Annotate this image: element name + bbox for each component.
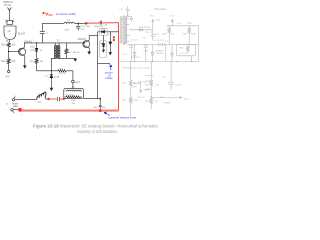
svg-text:2: 2 <box>13 19 14 21</box>
resistor R27 <box>150 97 153 109</box>
svg-text:C15: C15 <box>108 34 113 36</box>
node C12 <box>77 23 79 25</box>
red node yoke2 <box>18 108 22 112</box>
svg-text:controls retrace time: controls retrace time <box>108 115 136 119</box>
arrowhead down <box>8 7 12 10</box>
svg-text:2SD401: 2SD401 <box>78 39 87 41</box>
flyback T2 left winding <box>121 16 123 18</box>
svg-text:main: main <box>37 101 41 103</box>
diode CR8 <box>133 45 136 62</box>
svg-text:P6KE75: P6KE75 <box>156 53 165 55</box>
svg-text:T2: T2 <box>121 18 124 20</box>
svg-text:R26: R26 <box>145 85 150 87</box>
svg-text:voltage: voltage <box>105 77 113 80</box>
small element above red line <box>99 99 102 110</box>
CR2 wire <box>98 31 119 33</box>
svg-text:.1: .1 <box>47 33 50 35</box>
T1 bottom left lead <box>51 58 55 71</box>
svg-text:180-750 V: 180-750 V <box>138 82 149 84</box>
T1 bottom right rail <box>59 57 75 59</box>
node at x36.6 <box>36 42 37 43</box>
Q2 ground arrow <box>87 52 91 55</box>
svg-text:1: 1 <box>5 19 6 21</box>
svg-text:R25: R25 <box>123 100 128 102</box>
svg-text:HR7: HR7 <box>94 107 99 109</box>
svg-text:-0.6: -0.6 <box>76 52 80 54</box>
svg-text:R16: R16 <box>68 52 73 54</box>
svg-text:220: 220 <box>72 103 76 105</box>
series caps on W1 <box>159 43 165 46</box>
emitter arrowhead <box>23 65 27 68</box>
svg-text:470μ 16V: 470μ 16V <box>94 26 103 28</box>
transformer T1 left winding <box>54 43 56 46</box>
transformer T1 right winding <box>58 43 60 46</box>
red vertical <box>118 23 120 111</box>
vertical at 165.8 <box>165 45 167 62</box>
red top wire <box>86 22 118 25</box>
svg-text:yoke: yoke <box>13 105 19 108</box>
blue arrow retrace <box>105 113 110 116</box>
zener bottom arrowhead <box>50 88 54 91</box>
T2 taps <box>127 19 130 41</box>
svg-text:R24: R24 <box>123 83 128 85</box>
wire box to right <box>83 98 100 100</box>
wire R15 to R14 <box>8 47 10 59</box>
pot wiper <box>134 82 137 84</box>
svg-text:5mH: 5mH <box>65 29 70 31</box>
red node fly1 <box>113 36 115 38</box>
box right <box>176 45 195 56</box>
svg-text:+C4: +C4 <box>162 76 167 78</box>
cap on yoke line <box>57 97 59 101</box>
svg-text:R21: R21 <box>183 34 188 36</box>
svg-text:C7a: C7a <box>123 54 128 56</box>
svg-text:R17: R17 <box>59 68 64 70</box>
svg-text:1 M: 1 M <box>155 84 159 86</box>
CR6 stub <box>103 35 105 40</box>
svg-text:VCC: VCC <box>45 12 53 18</box>
svg-text:+: + <box>148 34 150 36</box>
blue arrow sweep <box>110 67 112 71</box>
svg-text:47M: 47M <box>132 87 136 89</box>
svg-text:+12V: +12V <box>75 82 81 84</box>
svg-text:C10: C10 <box>103 24 108 26</box>
+12V terminal <box>72 80 75 83</box>
svg-text:CR21: CR21 <box>30 47 36 49</box>
resistor R16 <box>65 43 68 58</box>
T2 right winding <box>125 16 127 18</box>
red node yoke mid <box>47 98 49 100</box>
svg-text:0.2 1 w: 0.2 1 w <box>179 53 186 55</box>
svg-text:J16: J16 <box>160 97 164 99</box>
red node box left <box>63 98 65 100</box>
horiz yoke coil <box>37 92 46 99</box>
red yoke segment <box>49 98 64 100</box>
svg-text:versions): versions) <box>145 75 154 77</box>
svg-text:R08: R08 <box>30 61 35 63</box>
svg-text:2: 2 <box>13 113 15 115</box>
svg-text:CR2: CR2 <box>101 28 106 30</box>
inductor L1 <box>64 22 75 23</box>
svg-text:1N914: 1N914 <box>30 50 37 52</box>
diode CR1 <box>35 43 38 59</box>
bell pin <box>6 40 10 43</box>
resistor R21 <box>188 26 191 45</box>
svg-text:100: 100 <box>11 45 16 47</box>
svg-text:2N4401: 2N4401 <box>24 41 33 43</box>
long vertical to yoke net <box>97 32 99 99</box>
cap C12 <box>76 23 80 30</box>
box bottom stub <box>191 56 193 62</box>
L3 R18 box <box>64 89 84 99</box>
zener CR3 <box>50 71 53 88</box>
Q2 base dot <box>83 42 85 44</box>
svg-text:NGP9112: NGP9112 <box>131 57 141 59</box>
diode CR7 chain <box>109 32 112 53</box>
svg-text:0.375 W: 0.375 W <box>58 73 66 75</box>
svg-text:C11: C11 <box>119 9 124 11</box>
red node top <box>85 22 88 25</box>
bell shape component <box>4 26 16 40</box>
svg-text:+17.4V: +17.4V <box>175 85 183 87</box>
svg-text:R15: R15 <box>2 45 7 47</box>
R17 rail <box>37 70 73 72</box>
svg-text:P3, 10: P3, 10 <box>138 97 145 99</box>
svg-text:5V1A: 5V1A <box>54 75 60 78</box>
svg-text:P4, 1: P4, 1 <box>150 16 156 18</box>
yoke wire <box>15 98 37 101</box>
svg-text:+: + <box>21 112 23 116</box>
crystal box U1 <box>7 20 12 24</box>
transformer T1 core <box>56 45 59 59</box>
cap C10 on red line <box>100 21 102 25</box>
svg-text:1: 1 <box>14 95 16 97</box>
right edge drop <box>198 45 200 62</box>
svg-text:4.1: 4.1 <box>45 76 49 78</box>
svg-text:(controls width): (controls width) <box>56 12 76 16</box>
resistor R20 <box>168 26 171 45</box>
svg-text:1 M: 1 M <box>171 34 175 36</box>
red Vcc bullet <box>42 12 44 14</box>
svg-text:C11 4.7: C11 4.7 <box>131 40 139 42</box>
CR6 diode inside box <box>102 41 105 50</box>
svg-text:P2, 7: P2, 7 <box>169 16 175 18</box>
svg-text:P2, 1: P2, 1 <box>184 99 190 101</box>
resistor R13 <box>35 58 38 70</box>
T2 core <box>122 16 125 46</box>
svg-text:R18: R18 <box>71 100 76 102</box>
junction dot <box>99 98 101 100</box>
connector HORIZ Pin 10 wire <box>8 10 10 20</box>
cap stub 1 <box>129 45 133 62</box>
svg-text:L1: L1 <box>67 20 70 22</box>
resistor R17 <box>58 70 66 72</box>
R18 zigzag inside <box>66 96 80 98</box>
diode CR9 <box>151 45 154 62</box>
pot branch x130 <box>130 62 132 81</box>
svg-text:490: 490 <box>102 107 106 109</box>
C13 branch <box>168 62 173 90</box>
+12V vertical <box>72 71 74 80</box>
top rail Vcc <box>42 22 86 24</box>
bottom right vertical x151 <box>150 62 152 80</box>
svg-text:Courtesy of Soft Solutions.: Courtesy of Soft Solutions. <box>77 129 118 134</box>
T2 top right cap <box>127 16 133 21</box>
zigzag in box <box>186 46 189 54</box>
svg-text:Pin 10: Pin 10 <box>4 4 11 7</box>
diode CR2 <box>102 30 105 33</box>
svg-text:CR9: CR9 <box>144 50 149 52</box>
svg-text:+5V: +5V <box>5 77 10 79</box>
resistor R14 <box>7 59 10 70</box>
CR2 box <box>99 28 107 35</box>
resistor R25 <box>129 97 132 116</box>
svg-text:R21: R21 <box>188 23 193 25</box>
W1 wire <box>127 44 199 46</box>
svg-text:UF: UF <box>8 31 12 33</box>
svg-text:22 μ: 22 μ <box>155 34 160 36</box>
svg-text:P1A8E7: P1A8E7 <box>156 49 165 52</box>
node zener top <box>51 70 52 71</box>
resistor R15 <box>7 42 10 47</box>
transistor Q1 <box>18 48 25 55</box>
rail collector to T1 to Q2 base <box>24 42 84 44</box>
svg-text:CR4A: CR4A <box>143 89 149 92</box>
svg-text:+33V: +33V <box>155 20 161 22</box>
pot R24 <box>129 80 132 97</box>
ground rail left black <box>98 63 110 64</box>
cap 22u <box>151 30 155 40</box>
terminal circle <box>8 70 10 72</box>
svg-text:Thermistor: Thermistor <box>154 8 166 11</box>
top right rail <box>167 26 199 45</box>
P2 arrow <box>171 22 173 26</box>
svg-text:22 μ: 22 μ <box>177 23 182 25</box>
CR5 wire <box>129 29 153 31</box>
svg-text:*NGP9112 not used in earlier: *NGP9112 not used in earlier <box>122 67 151 70</box>
svg-text:R14: R14 <box>2 61 7 63</box>
wire to Q1 base <box>9 51 20 53</box>
svg-text:C13: C13 <box>123 43 128 45</box>
svg-text:0.58/H: 0.58/H <box>164 102 171 104</box>
svg-text:R23: R23 <box>179 48 184 50</box>
red thick bottom line <box>20 110 119 112</box>
CR6 box <box>99 41 106 58</box>
svg-text:Figure 10-18 Macintosh SE ana: Figure 10-18 Macintosh SE analog board—h… <box>33 124 159 129</box>
svg-text:470: 470 <box>11 61 16 63</box>
yoke terminal 2 <box>11 109 13 111</box>
cap C1 branch <box>40 23 45 43</box>
T2 top lead + cap C11 <box>126 6 130 16</box>
svg-text:P4, 10: P4, 10 <box>146 32 153 34</box>
svg-text:16V: 16V <box>81 29 85 31</box>
wire to P2 arrow <box>151 97 179 99</box>
svg-text:Linearity: Linearity <box>66 93 75 96</box>
svg-text:470K: 470K <box>133 100 139 102</box>
ground arrow <box>74 57 76 60</box>
diode CR10 <box>171 45 174 62</box>
cap stub 2 <box>144 45 148 62</box>
transistor Q2 <box>83 41 90 48</box>
svg-text:T1: T1 <box>57 41 60 43</box>
svg-text:TIL234: TIL234 <box>18 33 26 35</box>
red node bottom mid <box>99 109 102 112</box>
svg-text:CR5 PL897: CR5 PL897 <box>139 27 151 29</box>
yoke terminal 1 <box>12 99 14 101</box>
resistor R26 <box>150 80 153 97</box>
svg-text:R20: R20 <box>163 34 168 36</box>
red node fly2 <box>113 39 115 41</box>
svg-text:64: 64 <box>40 50 43 52</box>
svg-text:CR6: CR6 <box>100 43 105 45</box>
svg-text:C6 70.7V F: C6 70.7V F <box>153 40 165 42</box>
svg-text:C8: C8 <box>143 38 147 40</box>
svg-text:43: 43 <box>155 101 158 103</box>
svg-text:470K: 470K <box>191 34 197 36</box>
node base junction <box>8 51 9 52</box>
svg-text:100: 100 <box>40 61 44 63</box>
svg-text:C9: C9 <box>165 41 169 43</box>
diode CR5 <box>139 29 142 32</box>
W2 rail <box>121 61 199 63</box>
L3 coil inside <box>67 90 82 91</box>
svg-text:J4: J4 <box>6 104 9 106</box>
P4 arrow <box>152 22 154 30</box>
